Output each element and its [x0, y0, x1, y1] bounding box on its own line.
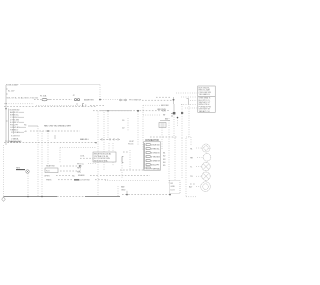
svg-text:GND: GND	[121, 189, 126, 191]
right pin text column	[163, 152, 166, 167]
wire vertical x38	[37, 126, 39, 197]
ground bus	[4, 196, 121, 198]
wire bend x130	[129, 150, 131, 170]
lamp L4	[190, 172, 210, 180]
svg-text:N.O.: N.O.	[46, 171, 50, 173]
legend connector table	[198, 86, 215, 113]
svg-text:K GRY KY: K GRY KY	[11, 135, 21, 137]
svg-text:FUSE 20 AMP: FUSE 20 AMP	[6, 83, 19, 86]
svg-text:TO CHASSIS GND: TO CHASSIS GND	[5, 140, 22, 143]
svg-text:H BRN LT: H BRN LT	[10, 129, 19, 131]
svg-text:YEL MAG KL: YEL MAG KL	[199, 93, 211, 96]
frame ground connector	[170, 181, 197, 194]
svg-text:GND: GND	[171, 186, 176, 188]
indicator lamp L5	[26, 170, 30, 174]
wire lead to CN2	[120, 169, 143, 171]
svg-text:PLUG: PLUG	[128, 143, 134, 145]
svg-text:5 GRN ST: 5 GRN ST	[151, 161, 161, 163]
wire tick	[54, 135, 56, 139]
node main bus junction	[99, 99, 101, 101]
svg-text:SEAT SW: SEAT SW	[46, 165, 55, 168]
wire main bus	[34, 99, 41, 101]
reverse switch S3	[77, 163, 108, 181]
wire vertical x42	[41, 131, 43, 197]
svg-text:6 BLU PT: 6 BLU PT	[151, 165, 160, 167]
svg-text:CONNECTOR: CONNECTOR	[145, 140, 159, 142]
seat switch S2	[44, 165, 82, 182]
node j96	[95, 142, 96, 143]
right harness verticals	[168, 118, 170, 184]
svg-text:2 RED B+: 2 RED B+	[151, 149, 160, 151]
wire dotted y147.5	[60, 147, 96, 149]
svg-text:1 BLK GD: 1 BLK GD	[151, 145, 160, 147]
svg-text:RED ORG YEL GRN BLU WHT: RED ORG YEL GRN BLU WHT	[44, 126, 72, 128]
svg-text:PRES: PRES	[46, 180, 52, 182]
svg-text:AMMETER: AMMETER	[84, 98, 94, 101]
left connector CN1 pin block	[9, 109, 27, 144]
node bus j170	[169, 194, 171, 196]
wire left main vertical	[5, 85, 7, 145]
svg-text:PTO SWITCH: PTO SWITCH	[129, 99, 142, 101]
wire legend lead 1	[176, 92, 197, 94]
resistor R2	[16, 167, 25, 169]
fuse F1	[40, 94, 50, 100]
wire lamp drop x28	[27, 174, 29, 197]
wire dotted y180	[105, 179, 160, 181]
wire segment	[90, 105, 104, 107]
svg-text:CLUTCH SW: CLUTCH SW	[78, 180, 90, 182]
connector CN2 block	[144, 142, 161, 171]
wire legend lead 2	[181, 96, 197, 98]
node arrowhead on left wire	[5, 108, 7, 110]
svg-text:B+ 12V: B+ 12V	[8, 91, 15, 93]
wire dashes y135	[150, 136, 177, 138]
svg-text:BRAKE: BRAKE	[78, 174, 85, 177]
dashed rail upper	[4, 106, 96, 108]
wire branch top right of center	[143, 104, 168, 106]
wire drop from fuse line	[99, 85, 101, 100]
key switch SW1 cluster	[156, 97, 189, 150]
lamp L3	[190, 162, 210, 170]
wire bus segment	[50, 99, 72, 101]
wire legend lead 3	[190, 100, 197, 102]
diode D1	[122, 118, 128, 131]
svg-text:4 YEL MG: 4 YEL MG	[151, 157, 160, 159]
wire vertical x48	[47, 131, 49, 164]
svg-text:MAG KILL: MAG KILL	[80, 138, 90, 141]
wire top feed	[20, 84, 100, 86]
svg-text:PTO CL: PTO CL	[77, 163, 85, 165]
svg-text:TAN ALT CH: TAN ALT CH	[199, 110, 210, 113]
svg-text:AM: AM	[165, 118, 168, 121]
alternator G1	[189, 182, 210, 192]
dash-dot rail mid	[93, 110, 160, 112]
wire stub to relay	[28, 125, 38, 127]
wire legend lead 4	[181, 104, 197, 106]
wire long dashed y175	[100, 174, 150, 176]
svg-text:J PUR AX: J PUR AX	[11, 131, 20, 134]
node junction on rail	[47, 130, 49, 132]
connector J2	[73, 95, 80, 101]
node rail junction A	[107, 110, 108, 111]
lamp L1	[190, 144, 210, 152]
wire dashed rail x30-80	[30, 130, 80, 132]
svg-text:REV: REV	[77, 167, 82, 169]
svg-text:LUG: LUG	[171, 189, 175, 191]
wire bus dotted	[101, 99, 118, 101]
node bus j127	[126, 194, 128, 196]
node rail junction B	[137, 110, 139, 112]
wire bus to key switch	[142, 99, 172, 101]
ground symbol	[2, 197, 6, 201]
interlock module M1	[93, 112, 116, 170]
node bus j28	[27, 196, 29, 198]
wire row under bus	[4, 103, 34, 105]
bracket terminal	[83, 104, 84, 107]
svg-text:SOL ST B+ IG AC MG LT GD B2: SOL ST B+ IG AC MG LT GD B2	[7, 97, 39, 100]
svg-text:OPER: OPER	[44, 175, 50, 177]
svg-text:3 ORG IG: 3 ORG IG	[151, 153, 160, 155]
wire drop x118	[117, 186, 119, 197]
wire vertical x60	[59, 148, 61, 163]
switch S1 inline	[120, 99, 127, 101]
svg-text:86 85 30 87 87A: 86 85 30 87 87A	[94, 160, 108, 163]
battery ground label	[121, 185, 127, 194]
wire verticals center	[97, 112, 99, 197]
lamp L2	[190, 154, 211, 162]
svg-text:7 WHT AC: 7 WHT AC	[151, 167, 161, 170]
bracket x122	[122, 157, 123, 163]
svg-text:RES: RES	[16, 167, 21, 169]
svg-text:SW: SW	[77, 171, 80, 173]
svg-text:IGN: IGN	[162, 110, 166, 112]
wire legend lead 5	[185, 107, 197, 109]
ground bus right	[122, 194, 170, 196]
svg-text:F1 20A: F1 20A	[40, 94, 47, 97]
wire left lower vertical	[3, 145, 5, 197]
node bus j42	[41, 196, 43, 198]
